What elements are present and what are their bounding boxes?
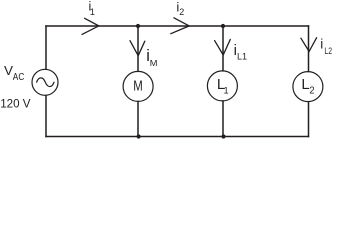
svg-text:AC: AC (13, 72, 24, 83)
svg-text:1: 1 (224, 85, 229, 95)
wire motor branch lower segment (137, 102, 139, 137)
wire left branch upper segment (45, 26, 47, 69)
motor M circle (123, 71, 153, 101)
wire bottom bus (46, 136, 309, 138)
svg-text:i: i (320, 37, 323, 52)
svg-text:L1: L1 (237, 52, 247, 62)
wire left branch lower segment (45, 96, 47, 137)
ac source V_AC circle (32, 69, 58, 95)
lamp L1 circle (207, 71, 237, 101)
wire motor branch upper segment (137, 26, 139, 71)
lamp L2 circle (293, 72, 323, 102)
wire L2 branch lower segment (308, 102, 310, 137)
current arrow iM down motor branch (130, 41, 145, 56)
junction node top at L1 branch (221, 24, 225, 28)
ac source sine wave (37, 78, 54, 87)
current arrow iL1 down L1 branch (215, 39, 231, 55)
current arrow i1 on top wire (82, 18, 99, 34)
junction node top at motor branch (136, 24, 140, 28)
svg-text:M: M (150, 58, 158, 68)
svg-text:M: M (133, 78, 143, 95)
current arrow iL2 down L2 branch (301, 38, 317, 52)
svg-text:120 V: 120 V (0, 96, 30, 110)
wire L1 branch upper segment (222, 26, 224, 71)
svg-text:1: 1 (90, 7, 95, 17)
junction node bottom at motor branch (137, 134, 141, 138)
wire L2 branch upper segment (308, 26, 310, 72)
junction node bottom at L1 branch (221, 134, 225, 138)
wire L1 branch lower segment (222, 101, 224, 137)
svg-text:2: 2 (309, 85, 315, 96)
svg-text:L2: L2 (324, 46, 332, 57)
wire top bus (46, 25, 309, 27)
current arrow i2 on top wire (171, 18, 189, 34)
svg-text:2: 2 (179, 7, 184, 17)
